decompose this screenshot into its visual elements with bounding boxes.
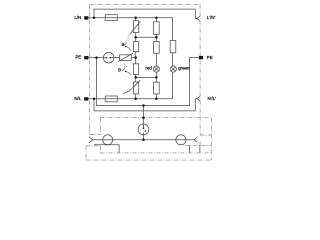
svg-text:L/N: L/N [74, 15, 81, 20]
svg-text:green: green [178, 66, 190, 71]
svg-text:N'/L': N'/L' [208, 96, 217, 101]
svg-text:PE: PE [207, 55, 213, 60]
svg-text:PE: PE [75, 55, 81, 60]
svg-text:L'/N': L'/N' [207, 15, 216, 20]
svg-text:N/L: N/L [74, 96, 81, 101]
svg-text:red: red [146, 65, 153, 70]
